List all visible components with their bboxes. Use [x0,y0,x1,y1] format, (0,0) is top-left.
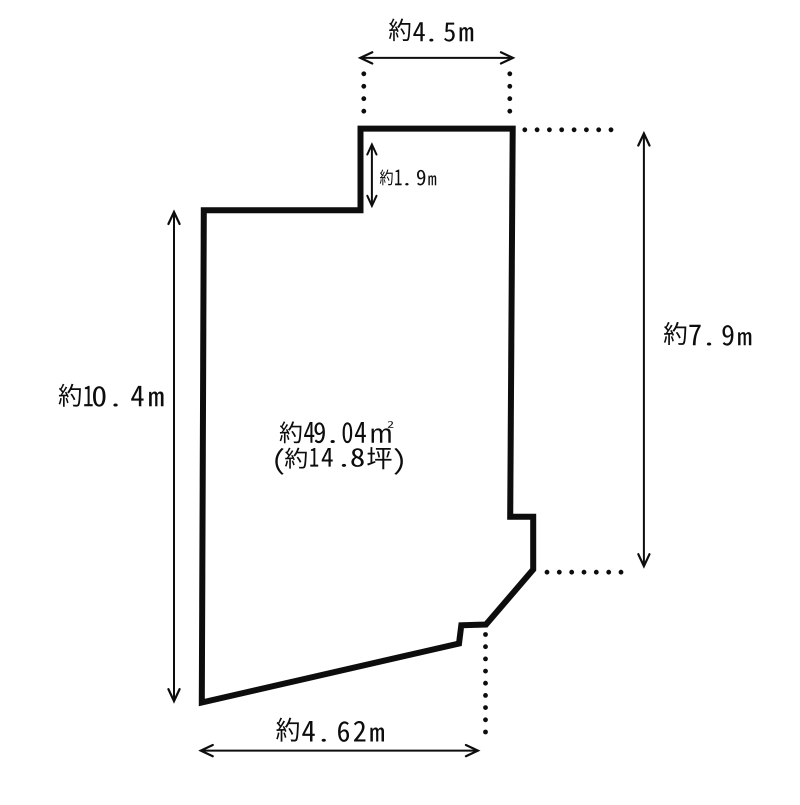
label 4.62m (bottom) [276,718,384,742]
label 7.9m (right) [664,322,751,346]
dimension arrow 1.9m (notch) [371,147,373,204]
extension dotted line right-bottom [545,570,550,575]
land plot outline [202,129,533,703]
label 4.5m (top) [389,18,473,41]
dimension arrow 4.5m (top) [363,57,510,59]
extension dotted line top-left [361,71,366,76]
label 1.9m (notch) [380,170,436,186]
label area 14.8 tsubo [275,447,403,475]
dimension arrow 10.4m (left) [173,215,175,699]
dimension arrow 7.9m (right) [643,136,645,564]
extension dotted line right of top edge [522,127,527,132]
label 10.4m (left) [59,384,164,407]
extension dotted line top-right [507,71,512,76]
extension dotted line bottom (below notch) [483,632,488,637]
dimension arrow 4.62m (bottom) [204,750,476,752]
label area 49.04 m2 [280,421,394,443]
